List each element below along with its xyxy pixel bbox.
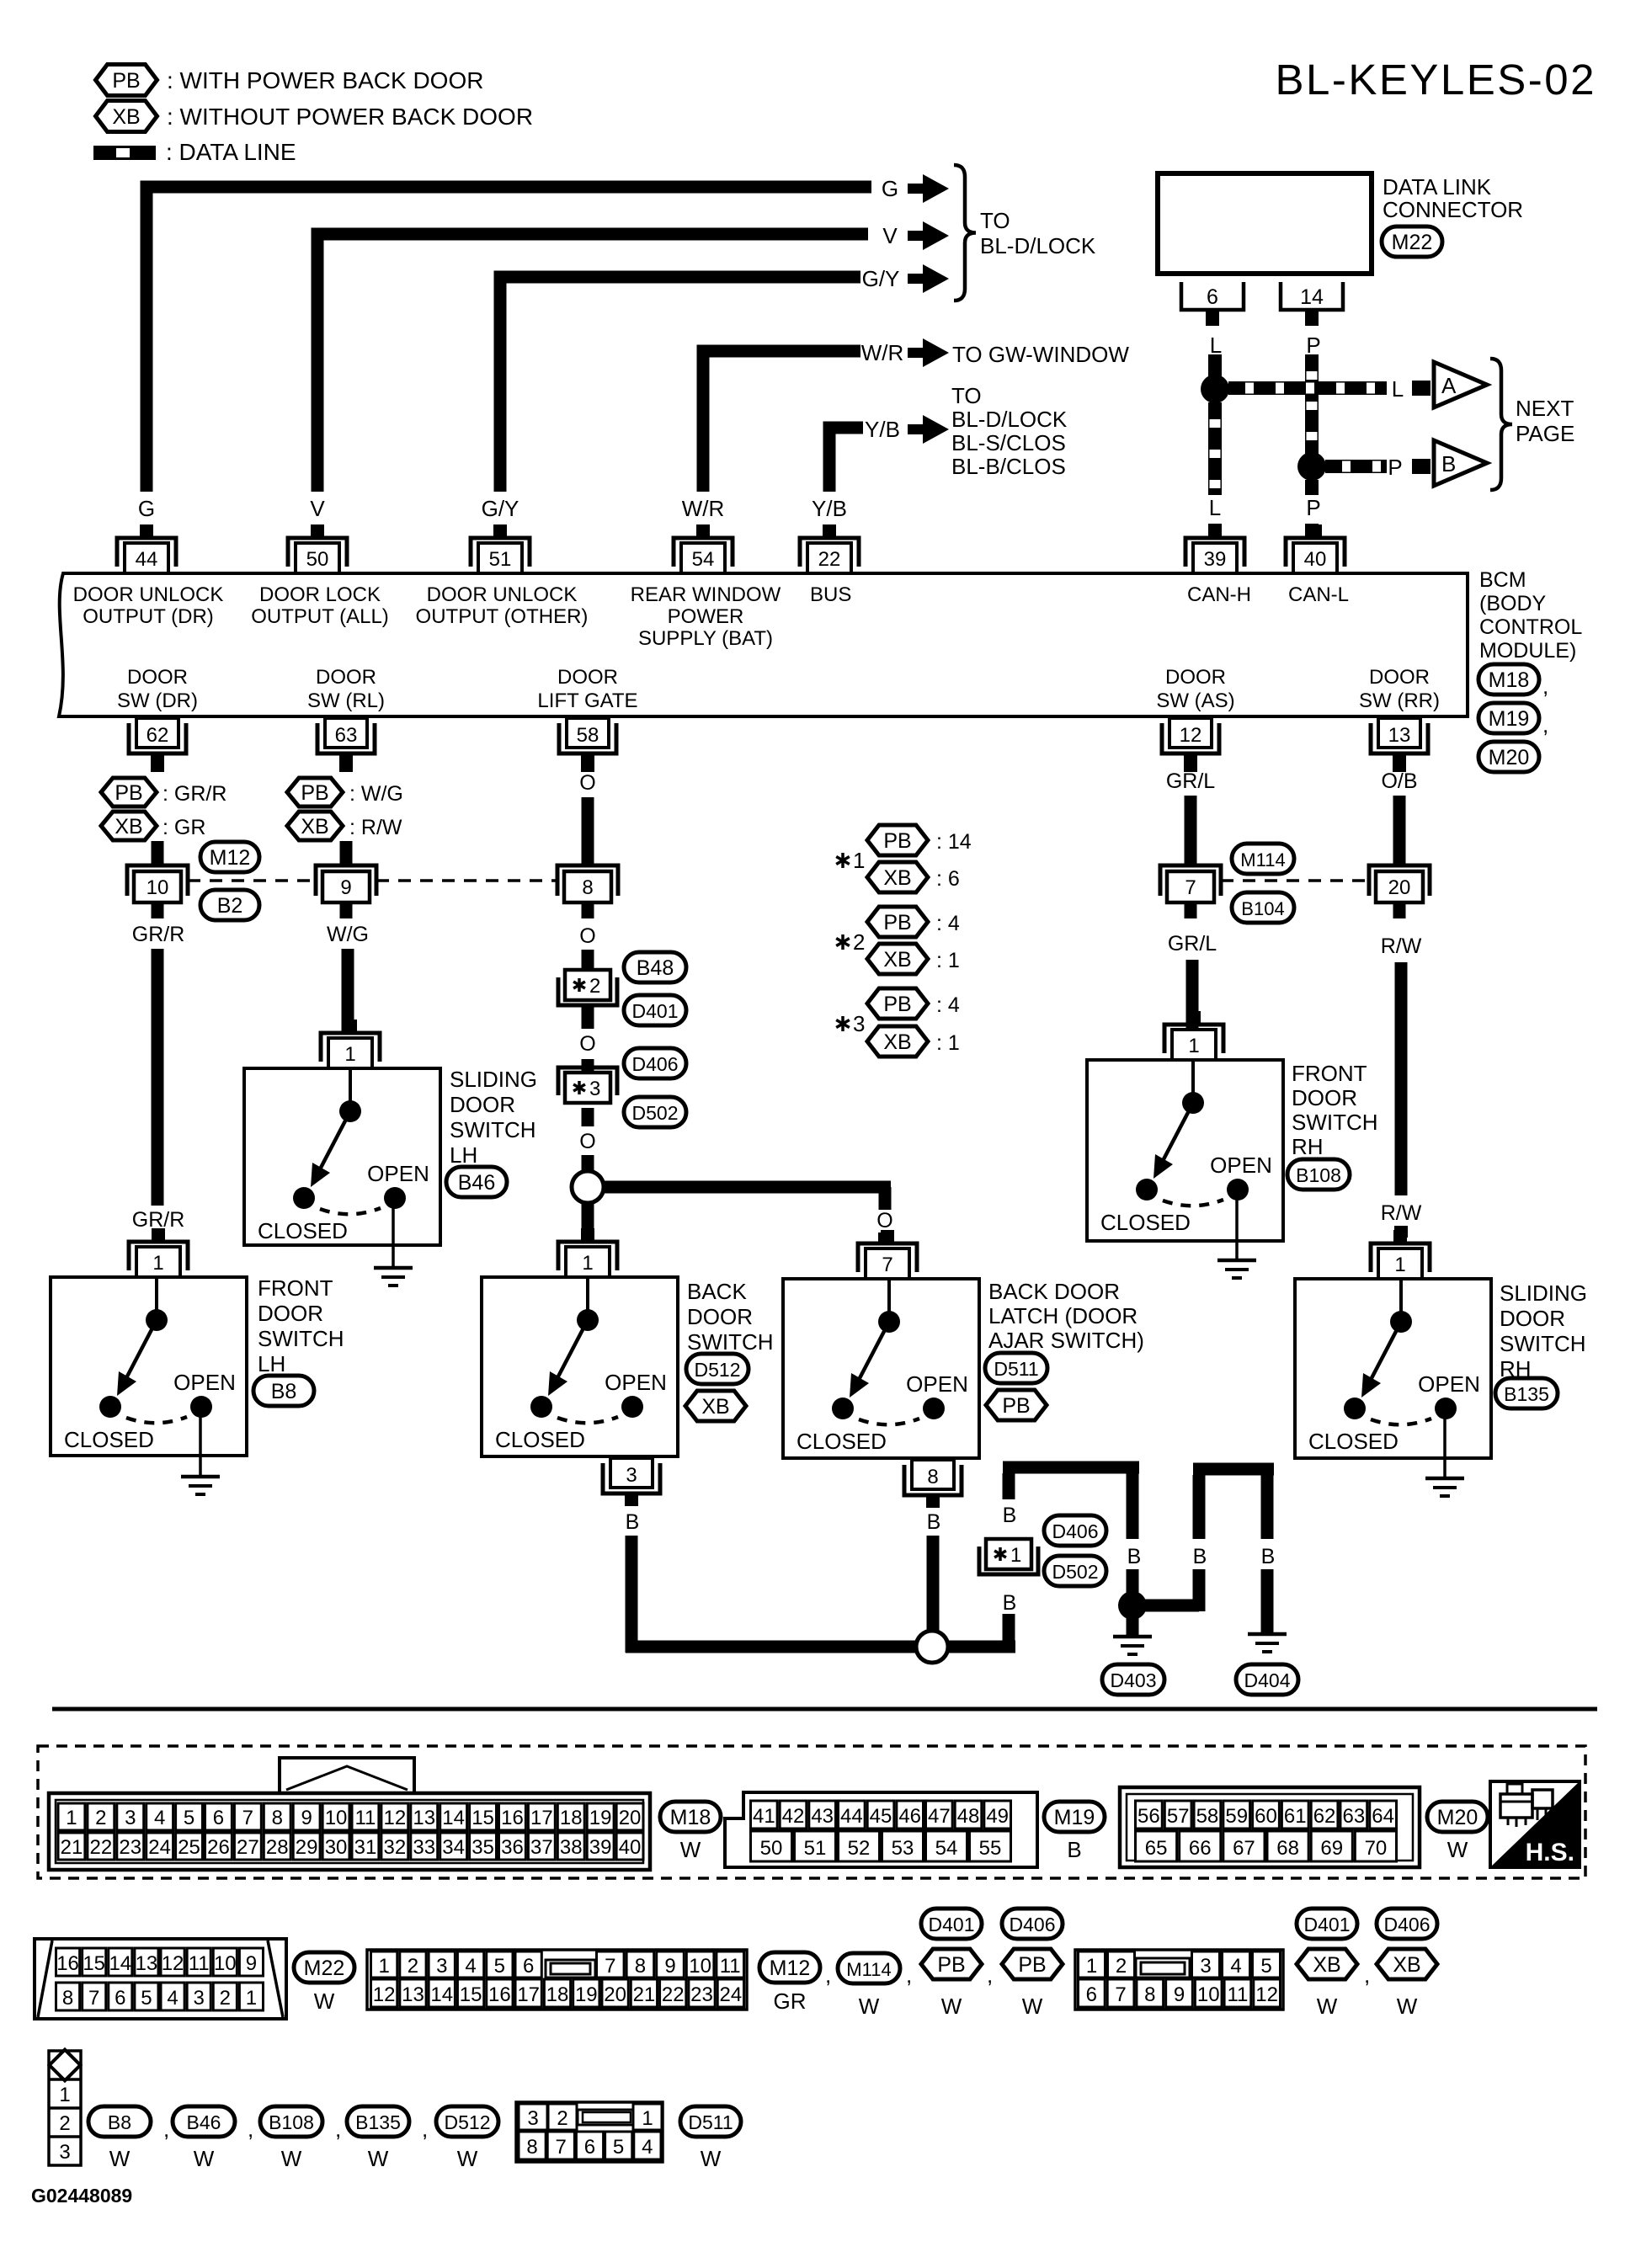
svg-text:,: ,	[335, 2116, 341, 2142]
svg-text:1: 1	[1188, 1035, 1199, 1057]
svg-text:,: ,	[1542, 673, 1548, 699]
svg-text:R/W: R/W	[1381, 1201, 1422, 1225]
svg-text:DOOR: DOOR	[1369, 666, 1430, 689]
svg-text:63: 63	[1342, 1805, 1365, 1828]
svg-text:2: 2	[557, 2107, 567, 2130]
svg-text:12: 12	[383, 1807, 406, 1829]
svg-text:D502: D502	[1052, 1561, 1099, 1583]
svg-text:53: 53	[892, 1837, 914, 1860]
svg-text:2: 2	[95, 1807, 106, 1829]
svg-text:23: 23	[119, 1836, 141, 1859]
svg-text:39: 39	[589, 1836, 612, 1859]
svg-text:W: W	[1022, 1994, 1043, 2019]
svg-text:SWITCH: SWITCH	[687, 1329, 774, 1355]
svg-text:63: 63	[335, 724, 358, 747]
svg-text:40: 40	[1304, 548, 1327, 571]
svg-text:DATA LINK: DATA LINK	[1383, 174, 1492, 200]
svg-text:DOOR: DOOR	[1165, 666, 1226, 689]
svg-text:8: 8	[635, 1955, 646, 1978]
svg-text:B: B	[1441, 451, 1456, 476]
svg-text:XB: XB	[883, 948, 911, 972]
svg-text:DOOR UNLOCK: DOOR UNLOCK	[73, 583, 224, 606]
svg-text:D512: D512	[695, 1359, 741, 1381]
svg-text:54: 54	[692, 548, 715, 571]
svg-text:SW (RL): SW (RL)	[307, 689, 385, 712]
svg-text:17: 17	[530, 1807, 553, 1829]
svg-text:41: 41	[753, 1805, 775, 1828]
svg-text:40: 40	[619, 1836, 642, 1859]
svg-text:10: 10	[689, 1955, 711, 1978]
svg-text:D406: D406	[1384, 1914, 1431, 1935]
svg-text:9: 9	[246, 1952, 257, 1975]
svg-text:CLOSED: CLOSED	[495, 1427, 585, 1452]
svg-text:D406: D406	[1010, 1914, 1056, 1935]
svg-text:BL-S/CLOS: BL-S/CLOS	[951, 430, 1066, 455]
svg-text:D404: D404	[1244, 1669, 1291, 1691]
svg-text:D401: D401	[632, 1000, 679, 1022]
svg-text:CLOSED: CLOSED	[1100, 1210, 1191, 1235]
svg-text:16: 16	[56, 1952, 79, 1975]
svg-text:20: 20	[1388, 876, 1411, 899]
svg-text:: W/G: : W/G	[349, 782, 403, 806]
svg-text:3: 3	[436, 1955, 447, 1978]
svg-text:44: 44	[840, 1805, 863, 1828]
svg-text:W: W	[680, 1837, 701, 1862]
svg-text:5: 5	[141, 1987, 152, 2010]
svg-text:PB: PB	[883, 993, 911, 1016]
svg-text:24: 24	[719, 1983, 742, 2006]
svg-text:W: W	[941, 1994, 962, 2019]
svg-text:12: 12	[162, 1952, 184, 1975]
svg-text:1: 1	[152, 1252, 163, 1275]
svg-text:CLOSED: CLOSED	[64, 1427, 154, 1452]
svg-text:B2: B2	[217, 894, 243, 918]
svg-text:,: ,	[163, 2116, 169, 2142]
svg-text:O: O	[579, 1032, 595, 1056]
svg-text:6: 6	[1207, 285, 1218, 309]
svg-text:37: 37	[530, 1836, 553, 1859]
svg-text:CONTROL: CONTROL	[1479, 615, 1582, 639]
svg-text:DOOR: DOOR	[557, 666, 618, 689]
svg-text:13: 13	[1388, 724, 1411, 747]
svg-text:1: 1	[1394, 1254, 1405, 1276]
svg-text:CAN-H: CAN-H	[1187, 583, 1251, 606]
svg-text:: R/W: : R/W	[349, 816, 402, 839]
svg-text:15: 15	[472, 1807, 494, 1829]
svg-text:P: P	[1306, 495, 1320, 520]
svg-text:B: B	[1003, 1504, 1017, 1527]
svg-text:REAR WINDOW: REAR WINDOW	[631, 583, 781, 606]
svg-text:9: 9	[301, 1807, 312, 1829]
svg-text:4: 4	[642, 2136, 653, 2159]
svg-text:: WITHOUT POWER BACK DOOR: : WITHOUT POWER BACK DOOR	[167, 104, 533, 130]
svg-text:2: 2	[853, 929, 865, 955]
svg-text:B: B	[927, 1510, 941, 1534]
svg-text:39: 39	[1204, 548, 1227, 571]
svg-text:RH: RH	[1292, 1134, 1324, 1159]
svg-text:XB: XB	[301, 815, 328, 839]
svg-text:: 1: : 1	[936, 1031, 960, 1055]
svg-text:G/Y: G/Y	[862, 266, 900, 291]
svg-text:W: W	[859, 1994, 880, 2019]
svg-text:4: 4	[465, 1955, 476, 1978]
svg-text:60: 60	[1255, 1805, 1277, 1828]
svg-text:19: 19	[575, 1983, 598, 2006]
svg-text:W: W	[1317, 1994, 1338, 2019]
svg-text:OPEN: OPEN	[906, 1371, 968, 1397]
svg-text:D511: D511	[688, 2111, 733, 2133]
svg-text:23: 23	[690, 1983, 713, 2006]
svg-text:DOOR: DOOR	[258, 1301, 323, 1326]
svg-text:BL-D/LOCK: BL-D/LOCK	[980, 233, 1096, 258]
svg-text:W: W	[457, 2146, 478, 2171]
svg-text:: 6: : 6	[936, 867, 960, 891]
svg-text:46: 46	[898, 1805, 921, 1828]
svg-text:67: 67	[1233, 1837, 1255, 1860]
svg-text:D502: D502	[632, 1102, 679, 1124]
svg-text:W: W	[1397, 1994, 1418, 2019]
svg-text:11: 11	[189, 1952, 210, 1975]
svg-text:3: 3	[853, 1011, 865, 1036]
svg-text:1: 1	[378, 1955, 389, 1978]
svg-text:L: L	[1209, 495, 1221, 520]
svg-text:8: 8	[62, 1987, 73, 2010]
svg-text:62: 62	[147, 724, 169, 747]
svg-text:G/Y: G/Y	[482, 496, 519, 521]
svg-text:PB: PB	[883, 829, 911, 853]
svg-text:BCM: BCM	[1479, 568, 1526, 592]
svg-text:34: 34	[442, 1836, 465, 1859]
svg-text:B: B	[1193, 1545, 1207, 1568]
svg-text:MODULE): MODULE)	[1479, 639, 1576, 663]
svg-text:W: W	[314, 1988, 335, 2014]
svg-text:25: 25	[178, 1836, 200, 1859]
svg-text:17: 17	[517, 1983, 540, 2006]
svg-text:W: W	[368, 2146, 389, 2171]
svg-text:2: 2	[408, 1955, 418, 1978]
svg-text:CLOSED: CLOSED	[797, 1429, 887, 1454]
svg-text:,: ,	[987, 1962, 993, 1988]
svg-text:AJAR SWITCH): AJAR SWITCH)	[988, 1328, 1144, 1353]
svg-text:L: L	[1392, 376, 1404, 402]
svg-text:33: 33	[413, 1836, 435, 1859]
svg-text:2: 2	[589, 975, 600, 998]
svg-text:6: 6	[213, 1807, 224, 1829]
svg-text:PB: PB	[1018, 1953, 1046, 1977]
svg-text:PB: PB	[112, 69, 140, 93]
svg-text:15: 15	[83, 1952, 105, 1975]
svg-text:3: 3	[1200, 1955, 1211, 1978]
svg-text:7: 7	[88, 1987, 99, 2010]
svg-text:13: 13	[136, 1952, 158, 1975]
svg-text:2: 2	[59, 2112, 70, 2135]
svg-text:SWITCH: SWITCH	[1500, 1331, 1586, 1356]
svg-text:SW (AS): SW (AS)	[1156, 689, 1234, 712]
svg-text:3: 3	[59, 2141, 70, 2164]
svg-text:59: 59	[1225, 1805, 1248, 1828]
svg-text:58: 58	[577, 724, 599, 747]
svg-text:48: 48	[957, 1805, 980, 1828]
svg-text:M19: M19	[1054, 1806, 1095, 1829]
svg-text:14: 14	[430, 1983, 453, 2006]
svg-text:OPEN: OPEN	[367, 1161, 429, 1186]
svg-text:22: 22	[89, 1836, 112, 1859]
svg-text:G02448089: G02448089	[31, 2185, 132, 2207]
svg-text:W: W	[109, 2146, 131, 2171]
svg-text:10: 10	[214, 1952, 237, 1975]
svg-text:XB: XB	[883, 866, 911, 890]
svg-text:M22: M22	[1392, 231, 1433, 254]
svg-text:8: 8	[927, 1466, 938, 1488]
svg-text:BUS: BUS	[810, 583, 851, 606]
svg-text:12: 12	[1255, 1983, 1278, 2006]
svg-text:5: 5	[1260, 1955, 1271, 1978]
svg-text:OUTPUT (ALL): OUTPUT (ALL)	[251, 605, 389, 628]
svg-text:LH: LH	[258, 1351, 285, 1376]
svg-text:4: 4	[167, 1987, 178, 2010]
svg-text:M12: M12	[210, 846, 251, 870]
svg-text:XB: XB	[1313, 1953, 1340, 1977]
svg-text:OUTPUT (OTHER): OUTPUT (OTHER)	[416, 605, 589, 628]
svg-text:14: 14	[442, 1807, 465, 1829]
svg-text:OPEN: OPEN	[605, 1370, 667, 1395]
svg-text:50: 50	[306, 548, 329, 571]
svg-text:13: 13	[402, 1983, 424, 2006]
svg-text:W/R: W/R	[861, 340, 904, 365]
svg-text:8: 8	[272, 1807, 283, 1829]
svg-text:PAGE: PAGE	[1516, 421, 1574, 446]
svg-text:B8: B8	[108, 2111, 131, 2133]
svg-text:DOOR: DOOR	[687, 1304, 753, 1329]
svg-text:B8: B8	[271, 1380, 297, 1403]
svg-text:9: 9	[1174, 1983, 1185, 2006]
svg-text:XB: XB	[883, 1030, 911, 1054]
svg-text:SLIDING: SLIDING	[450, 1067, 537, 1092]
svg-text:Y/B: Y/B	[865, 417, 900, 442]
svg-text:12: 12	[373, 1983, 396, 2006]
svg-text:M20: M20	[1437, 1806, 1478, 1829]
svg-text:O/B: O/B	[1381, 769, 1417, 793]
svg-text:29: 29	[296, 1836, 318, 1859]
svg-text:B: B	[1261, 1545, 1276, 1568]
svg-text:66: 66	[1189, 1837, 1212, 1860]
svg-text:45: 45	[870, 1805, 892, 1828]
svg-text:28: 28	[266, 1836, 289, 1859]
svg-text:42: 42	[782, 1805, 805, 1828]
svg-text:B108: B108	[1296, 1164, 1341, 1186]
svg-text:21: 21	[633, 1983, 656, 2006]
svg-text:7: 7	[556, 2136, 567, 2159]
svg-text:R/W: R/W	[1381, 934, 1422, 958]
svg-text:W: W	[701, 2146, 722, 2171]
svg-text:SW (RR): SW (RR)	[1359, 689, 1440, 712]
svg-text:: DATA LINE: : DATA LINE	[166, 139, 296, 165]
svg-text:M114: M114	[846, 1959, 891, 1980]
svg-text:W: W	[194, 2146, 215, 2171]
svg-text:43: 43	[811, 1805, 834, 1828]
svg-text:38: 38	[560, 1836, 583, 1859]
svg-text:3: 3	[125, 1807, 136, 1829]
svg-text:LIFT GATE: LIFT GATE	[537, 689, 637, 712]
svg-text:6: 6	[1086, 1983, 1097, 2006]
svg-text:SLIDING: SLIDING	[1500, 1280, 1587, 1306]
svg-text:62: 62	[1313, 1805, 1336, 1828]
svg-text:M18: M18	[1489, 668, 1530, 692]
svg-text:PB: PB	[883, 911, 911, 934]
svg-text:32: 32	[383, 1836, 406, 1859]
svg-text:31: 31	[354, 1836, 377, 1859]
svg-text:D511: D511	[994, 1358, 1038, 1380]
svg-text:SWITCH: SWITCH	[1292, 1110, 1378, 1135]
svg-text:16: 16	[501, 1807, 524, 1829]
svg-text:B135: B135	[355, 2111, 401, 2133]
svg-text:W: W	[1447, 1837, 1468, 1862]
svg-text:7: 7	[1115, 1983, 1126, 2006]
svg-text:CLOSED: CLOSED	[1308, 1429, 1399, 1454]
svg-text:1: 1	[853, 848, 865, 873]
svg-text:A: A	[1441, 373, 1457, 398]
svg-text:,: ,	[906, 1962, 912, 1988]
svg-text:51: 51	[489, 548, 512, 571]
svg-text:5: 5	[184, 1807, 194, 1829]
svg-text:: GR/R: : GR/R	[162, 782, 226, 806]
svg-text:OPEN: OPEN	[1210, 1153, 1272, 1178]
svg-text:BL-D/LOCK: BL-D/LOCK	[951, 407, 1068, 432]
svg-text:POWER: POWER	[668, 605, 744, 628]
svg-text:47: 47	[928, 1805, 951, 1828]
svg-text:XB: XB	[1393, 1953, 1420, 1977]
svg-text:Y/B: Y/B	[812, 496, 847, 521]
svg-text:M22: M22	[304, 1957, 345, 1980]
svg-text:18: 18	[546, 1983, 569, 2006]
svg-text:: GR: : GR	[162, 816, 205, 839]
svg-text:M12: M12	[770, 1957, 811, 1980]
svg-text:1: 1	[642, 2107, 653, 2130]
svg-text:56: 56	[1137, 1805, 1160, 1828]
svg-text:22: 22	[818, 548, 841, 571]
svg-text:M19: M19	[1489, 707, 1530, 731]
svg-text:P: P	[1306, 333, 1320, 358]
svg-text:O: O	[579, 1130, 595, 1153]
svg-text:D401: D401	[929, 1914, 975, 1935]
svg-text:B108: B108	[269, 2111, 314, 2133]
svg-text:8: 8	[582, 876, 593, 899]
svg-text:B104: B104	[1241, 898, 1284, 919]
svg-text:SWITCH: SWITCH	[258, 1326, 344, 1351]
svg-text:B46: B46	[458, 1171, 495, 1195]
svg-text:14: 14	[1300, 285, 1324, 309]
svg-text:9: 9	[664, 1955, 675, 1978]
svg-text:4: 4	[154, 1807, 165, 1829]
svg-text:1: 1	[1086, 1955, 1097, 1978]
svg-text:50: 50	[760, 1837, 783, 1860]
svg-text:O: O	[579, 924, 595, 948]
svg-text:V: V	[310, 496, 325, 521]
svg-text:D403: D403	[1111, 1669, 1157, 1691]
svg-text:64: 64	[1372, 1805, 1394, 1828]
svg-text:22: 22	[662, 1983, 685, 2006]
svg-text:8: 8	[1144, 1983, 1155, 2006]
svg-text:GR/L: GR/L	[1168, 932, 1217, 956]
svg-text:6: 6	[584, 2136, 595, 2159]
svg-text:36: 36	[501, 1836, 524, 1859]
svg-text:44: 44	[136, 548, 158, 571]
svg-text:6: 6	[523, 1955, 534, 1978]
svg-text:3: 3	[589, 1078, 600, 1100]
svg-text:1: 1	[66, 1807, 77, 1829]
svg-text:: 4: : 4	[936, 993, 960, 1017]
svg-text:11: 11	[720, 1955, 741, 1978]
svg-text:B: B	[1127, 1545, 1142, 1568]
svg-text:GR/R: GR/R	[132, 1208, 185, 1232]
svg-text:7: 7	[882, 1254, 892, 1276]
svg-text:NEXT: NEXT	[1516, 396, 1574, 421]
svg-text:W/G: W/G	[327, 923, 369, 946]
svg-text:13: 13	[413, 1807, 435, 1829]
svg-text:GR: GR	[774, 1988, 807, 2014]
svg-text:,: ,	[1542, 712, 1548, 737]
svg-text:BACK DOOR: BACK DOOR	[988, 1279, 1120, 1304]
svg-text:1: 1	[1010, 1544, 1021, 1567]
svg-text:DOOR: DOOR	[316, 666, 376, 689]
svg-text:GR/R: GR/R	[132, 923, 185, 946]
svg-text:1: 1	[246, 1987, 257, 2010]
svg-text:BL-KEYLES-02: BL-KEYLES-02	[1275, 56, 1596, 104]
svg-text:PB: PB	[301, 781, 328, 805]
svg-text:TO: TO	[951, 383, 982, 408]
svg-text:69: 69	[1320, 1837, 1343, 1860]
svg-text:3: 3	[626, 1464, 637, 1487]
svg-text:: WITH POWER BACK DOOR: : WITH POWER BACK DOOR	[167, 67, 483, 93]
svg-text:35: 35	[472, 1836, 494, 1859]
svg-text:BL-B/CLOS: BL-B/CLOS	[951, 454, 1066, 479]
svg-text:PB: PB	[937, 1953, 965, 1977]
svg-text:49: 49	[986, 1805, 1009, 1828]
svg-text:B: B	[626, 1510, 640, 1534]
svg-text:L: L	[1210, 333, 1222, 358]
svg-text:G: G	[882, 176, 898, 201]
svg-text:18: 18	[560, 1807, 583, 1829]
svg-text:DOOR: DOOR	[1500, 1306, 1565, 1331]
svg-text:1: 1	[582, 1252, 593, 1275]
svg-text:21: 21	[61, 1836, 83, 1859]
svg-text:19: 19	[589, 1807, 612, 1829]
svg-text:P: P	[1388, 455, 1402, 480]
svg-text:24: 24	[148, 1836, 171, 1859]
svg-text:7: 7	[242, 1807, 253, 1829]
svg-text:57: 57	[1167, 1805, 1190, 1828]
svg-text:OUTPUT (DR): OUTPUT (DR)	[83, 605, 214, 628]
svg-text:2: 2	[220, 1987, 231, 2010]
svg-text:20: 20	[604, 1983, 626, 2006]
svg-text:M20: M20	[1489, 746, 1530, 769]
svg-text:,: ,	[825, 1962, 831, 1988]
svg-text:FRONT: FRONT	[258, 1275, 333, 1301]
svg-text:1: 1	[59, 2084, 70, 2106]
svg-text:B: B	[1067, 1837, 1081, 1862]
svg-text:SW (DR): SW (DR)	[117, 689, 198, 712]
svg-text:W/R: W/R	[682, 496, 725, 521]
svg-text:LH: LH	[450, 1142, 477, 1168]
svg-text:61: 61	[1284, 1805, 1307, 1828]
svg-text:DOOR LOCK: DOOR LOCK	[259, 583, 381, 606]
svg-text:SUPPLY (BAT): SUPPLY (BAT)	[638, 627, 773, 650]
svg-text:DOOR: DOOR	[1292, 1085, 1357, 1110]
svg-text:D406: D406	[632, 1053, 679, 1075]
svg-text:B135: B135	[1504, 1383, 1549, 1405]
svg-text:65: 65	[1145, 1837, 1168, 1860]
svg-text:H.S.: H.S.	[1526, 1839, 1574, 1866]
